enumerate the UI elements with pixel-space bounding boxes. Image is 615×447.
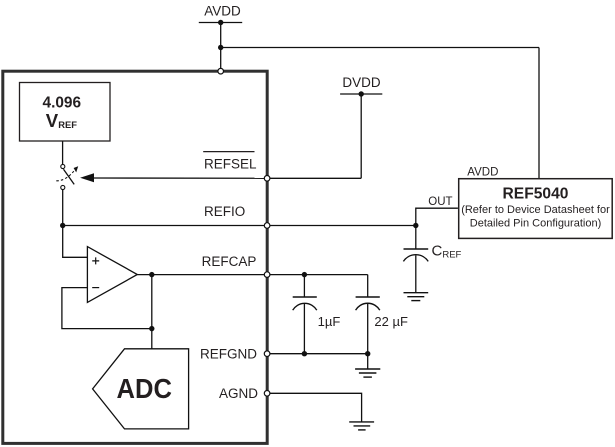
wire 22uF bottom to ground bbox=[367, 354, 369, 369]
capacitor C1 1uF top plate bbox=[293, 296, 317, 298]
overline for REFSEL bbox=[203, 151, 254, 153]
wire output down to feedback/ADC bbox=[151, 275, 153, 349]
svg-text:REFGND: REFGND bbox=[200, 346, 257, 361]
op-amp buffer A1 bbox=[87, 247, 137, 303]
svg-text:OUT: OUT bbox=[428, 196, 452, 208]
wire AVDD down to REF5040 box top bbox=[538, 48, 540, 179]
pin circle REFCAP bbox=[264, 272, 270, 278]
capacitor CREF curved plate bbox=[403, 255, 428, 262]
svg-text:1µF: 1µF bbox=[318, 314, 341, 329]
capacitor C2 22uF bottom lead bbox=[367, 304, 369, 354]
switch S1 bottom contact bbox=[61, 185, 65, 189]
junction dot OUT/REFIO bbox=[413, 223, 418, 228]
AVDD supply bar bbox=[199, 22, 242, 24]
junction dot node REFIO internal bbox=[60, 223, 65, 228]
wire down to CREF bbox=[415, 226, 417, 250]
wire REFIO junction down to op-amp + input bbox=[63, 226, 88, 258]
svg-text:4.096: 4.096 bbox=[43, 95, 82, 112]
pin circle REFGND bbox=[264, 351, 270, 357]
svg-text:REFIO: REFIO bbox=[204, 204, 245, 219]
pin circle AGND bbox=[264, 391, 270, 397]
svg-text:Detailed Pin Configuration): Detailed Pin Configuration) bbox=[470, 217, 601, 229]
switch S1 rotation arc (dashed) bbox=[56, 171, 74, 181]
capacitor C1 1uF curved plate bbox=[293, 303, 317, 310]
svg-text:REFSEL: REFSEL bbox=[204, 156, 257, 171]
junction dot on DVDD bar bbox=[359, 91, 364, 96]
ADC block (pentagon) bbox=[93, 349, 189, 429]
capacitor C2 22uF top plate bbox=[356, 296, 380, 298]
REF5040 box U1 bbox=[459, 179, 613, 239]
op-amp minus sign bbox=[92, 287, 99, 289]
junction dot 22uF bottom bbox=[365, 351, 370, 356]
switch S1 rotation arrowhead bbox=[74, 166, 79, 172]
reference box 4.096 VREF bbox=[20, 83, 111, 142]
svg-text:(Refer to Device Datasheet for: (Refer to Device Datasheet for bbox=[461, 204, 610, 216]
switch S1 blade bbox=[64, 169, 75, 184]
wire REFGND line bbox=[267, 353, 368, 355]
junction dot 1uF top bbox=[302, 272, 307, 277]
svg-text:VREF: VREF bbox=[46, 110, 77, 131]
svg-text:ADC: ADC bbox=[117, 373, 172, 404]
op-amp plus sign bbox=[92, 257, 99, 264]
svg-text:AGND: AGND bbox=[219, 386, 258, 401]
capacitor C2 22uF curved plate bbox=[356, 303, 380, 310]
wire op-amp output to REFCAP and cap branch bbox=[137, 274, 367, 276]
capacitor CREF bottom lead bbox=[415, 256, 417, 293]
ADC device outline box U2 bbox=[3, 71, 267, 443]
capacitor C1 1uF bottom lead bbox=[303, 304, 305, 354]
wire REFSEL inside box to switch arrow bbox=[93, 177, 267, 179]
arrowhead pointing at switch bbox=[80, 173, 94, 182]
junction dot op-amp output bbox=[149, 272, 154, 277]
wire feedback loop to op-amp inverting input bbox=[62, 288, 152, 329]
wire AVDD branch to REF5040 (horizontal) bbox=[221, 47, 539, 49]
junction dot node AVDD branch bbox=[218, 45, 223, 50]
svg-text:CREF: CREF bbox=[432, 243, 462, 261]
ground symbol below CREF bbox=[404, 293, 429, 301]
capacitor CREF top plate bbox=[404, 248, 429, 250]
junction dot 1uF bottom bbox=[302, 351, 307, 356]
ground symbol below 22uF bbox=[355, 369, 380, 377]
wire switch bottom to REFIO line bbox=[62, 190, 64, 226]
pin circle AVDD (box top) bbox=[218, 68, 224, 74]
wire REFIO line (internal + external to OUT branch) bbox=[63, 225, 416, 227]
svg-text:REFCAP: REFCAP bbox=[202, 254, 257, 269]
switch S1 top contact bbox=[61, 164, 65, 168]
wire AVDD bar to box top pin bbox=[220, 23, 222, 72]
wire AGND to ground bbox=[267, 393, 362, 422]
wire 1uF top branch down bbox=[303, 275, 305, 297]
wire DVDD down to REFSEL line bbox=[360, 94, 362, 178]
svg-text:REF5040: REF5040 bbox=[503, 185, 569, 202]
junction dot feedback node bbox=[149, 326, 154, 331]
junction dot on AVDD bar bbox=[218, 20, 223, 25]
wire VREF box to switch top bbox=[62, 141, 64, 164]
ground symbol AGND bbox=[349, 422, 374, 430]
pin circle REFSEL bbox=[264, 176, 270, 182]
pin circle REFIO bbox=[264, 223, 270, 229]
svg-text:22 µF: 22 µF bbox=[374, 314, 408, 329]
svg-text:DVDD: DVDD bbox=[342, 75, 381, 90]
DVDD supply bar bbox=[340, 93, 382, 95]
svg-text:AVDD: AVDD bbox=[204, 3, 241, 18]
wire 22uF top branch down bbox=[367, 275, 369, 297]
wire REF5040 OUT to REFIO net bbox=[416, 208, 458, 225]
wire DVDD to REFSEL pin bbox=[267, 177, 361, 179]
svg-text:AVDD: AVDD bbox=[467, 167, 498, 179]
